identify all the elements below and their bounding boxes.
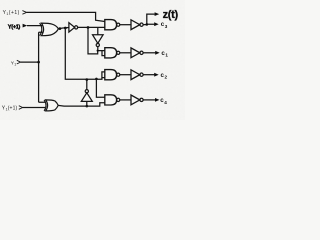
wire V2 from J2 down to NAND U1 top input bbox=[88, 28, 105, 54]
wire U3 output to buffer B3 bbox=[120, 24, 131, 26]
buffer B3 (row C3) bbox=[131, 20, 143, 30]
junction U6 stem on XOR2 output wire bbox=[86, 105, 89, 108]
wire from Y1 to vertical bus V0 bbox=[21, 61, 39, 63]
arrow to c1 bbox=[155, 51, 160, 55]
wire W1 from Y(t+1) to NAND U3 top input bbox=[27, 12, 105, 21]
junction on C3 branch bbox=[146, 23, 149, 26]
buffer B1 (small inverter) on main line bbox=[69, 23, 78, 32]
buffer B7 (row C4) bbox=[131, 95, 143, 105]
wire U2 output to buffer B6 bbox=[120, 74, 131, 76]
inverter U6 (points up) from XOR G2 output bbox=[81, 80, 92, 107]
node Y1 input label middle-left bbox=[11, 60, 16, 66]
tied input bar U1 bbox=[102, 51, 105, 56]
input chevron bottom bbox=[19, 106, 23, 110]
node label c3 bbox=[161, 21, 168, 29]
svg-text:4: 4 bbox=[164, 100, 167, 105]
wire XOR G1 output bbox=[58, 28, 68, 29]
junction J1 (branch to V1) bbox=[64, 27, 67, 30]
XOR gate G2 bottom-left bbox=[44, 100, 58, 111]
buffer B5 (row C1) bbox=[131, 48, 143, 58]
wire V1 from J1 down then right to NAND U2 bbox=[65, 28, 105, 79]
svg-text:1: 1 bbox=[14, 62, 16, 66]
junction V0 x Y1 wire bbox=[37, 61, 40, 64]
svg-text:(+1): (+1) bbox=[9, 10, 20, 16]
NAND U3 (row C3) bbox=[105, 20, 120, 30]
arrow to c3 bbox=[154, 22, 159, 26]
inverter U5 (points down) on main line bbox=[93, 27, 104, 50]
input arrow for ybar(t+1) bbox=[23, 24, 28, 28]
node label z(t) top right (blurry bold) bbox=[163, 9, 179, 21]
wire W2 to XOR G1 top input bbox=[27, 25, 43, 27]
input chevron for Y1 bbox=[17, 60, 21, 64]
junction segB on V1 line bbox=[95, 78, 98, 81]
wire U1 output to buffer B5 bbox=[120, 52, 131, 54]
wire to c1 arrow bbox=[143, 52, 155, 54]
arrow to z(t) label bbox=[155, 12, 160, 16]
wire B3 output with branch up to z(t) bbox=[143, 14, 155, 25]
node Y(t+1) input label bottom-left bbox=[2, 106, 18, 112]
node Y(t+1) input label top-left bbox=[3, 10, 20, 16]
node ybar(t+1) input label (dark blob) bbox=[8, 24, 21, 30]
wire to c4 arrow bbox=[143, 99, 155, 101]
wire vertical bus V0 (Y1 to both XOR gates) bbox=[39, 32, 45, 102]
svg-text:(+1): (+1) bbox=[8, 106, 18, 112]
svg-text:Y(+1): Y(+1) bbox=[8, 24, 21, 30]
junction J2 (branch V2 down) bbox=[87, 26, 90, 29]
wire to c2 arrow bbox=[143, 74, 154, 76]
svg-text:3: 3 bbox=[165, 24, 168, 29]
svg-text:2: 2 bbox=[165, 75, 168, 80]
svg-text:1: 1 bbox=[165, 53, 168, 58]
node label c2 bbox=[161, 72, 168, 80]
NAND U4 (row C4) bbox=[105, 95, 120, 105]
junction inverter output joins V2 path bbox=[97, 50, 99, 52]
svg-text:z(t): z(t) bbox=[163, 9, 179, 21]
buffer B6 (row C2) bbox=[131, 70, 143, 80]
node label c4 bbox=[160, 97, 167, 105]
NAND U2 (row C2) bbox=[105, 70, 120, 80]
wire XOR G2 output to NAND U4 bottom input bbox=[58, 103, 105, 106]
node label c1 bbox=[161, 50, 168, 58]
arrow to c4 bbox=[155, 98, 160, 102]
XOR gate G1 top-left bbox=[40, 23, 59, 36]
input chevron for Y(t+1) bbox=[22, 11, 26, 15]
NAND U1 (row C1) bbox=[105, 48, 120, 58]
wire main line P to NAND U3 bottom input bbox=[78, 26, 105, 28]
wire segB down to NAND U4 top input bbox=[96, 79, 104, 97]
junction BUF2 stem on V1 line bbox=[86, 78, 89, 81]
wire U4 output to buffer B7 bbox=[120, 99, 131, 101]
arrow to c2 bbox=[154, 73, 159, 77]
wire to XOR G2 bottom input bbox=[23, 107, 45, 109]
node dot at G1 output bbox=[59, 27, 62, 30]
